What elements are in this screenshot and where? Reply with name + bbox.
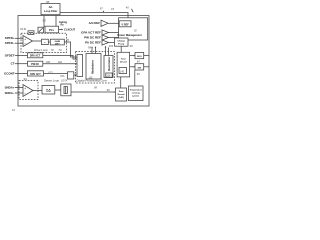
- svg-text:SPKR+: SPKR+: [5, 36, 15, 40]
- svg-text:OFDET: OFDET: [5, 53, 15, 57]
- svg-text:GCONT: GCONT: [4, 71, 15, 75]
- svg-text:CLKOUT: CLKOUT: [64, 28, 76, 32]
- svg-text:Tone: Tone: [118, 91, 124, 93]
- chip outer frame: [18, 16, 149, 107]
- svg-text:Decod: Decod: [118, 94, 125, 96]
- wire row A to core: [43, 55, 76, 59]
- svg-text:DRV: DRV: [55, 43, 60, 45]
- wire row B in: [15, 63, 28, 65]
- wire CP to tone: [120, 46, 122, 52]
- svg-text:GPA VCT REF: GPA VCT REF: [81, 30, 101, 34]
- svg-text:Sense Loop: Sense Loop: [44, 79, 59, 83]
- svg-text:70: 70: [51, 48, 55, 52]
- svg-text:103: 103: [109, 44, 114, 48]
- svg-text:140: 140: [120, 70, 125, 73]
- svg-text:+: +: [24, 37, 26, 41]
- wire input-: [15, 42, 23, 44]
- wire row C in: [15, 72, 28, 74]
- svg-text:Modulator: Modulator: [91, 59, 95, 74]
- box M1 sigma-delta ADC: [42, 86, 55, 95]
- wire B1 to VREF: [108, 22, 119, 24]
- wire T1 to T2: [120, 77, 122, 88]
- buffer B4: [102, 40, 109, 45]
- svg-text:DRV ACT: DRV ACT: [30, 55, 41, 58]
- svg-text:Pump: Pump: [118, 44, 125, 46]
- wire core top stub 3: [105, 46, 107, 56]
- svg-text:A/L: A/L: [49, 5, 54, 9]
- svg-text:PLL: PLL: [49, 28, 55, 32]
- svg-text:Decod: Decod: [120, 62, 127, 64]
- svg-text:ΣΔ: ΣΔ: [46, 89, 51, 93]
- svg-text:Temperature: Temperature: [129, 89, 142, 92]
- wire loop-filter right stub: [55, 16, 57, 27]
- svg-text:96: 96: [107, 88, 110, 92]
- svg-text:Loop Filter: Loop Filter: [44, 9, 57, 13]
- wire D1-D2: [48, 41, 50, 43]
- box RA DRV ACT: [28, 53, 43, 58]
- svg-text:PA DC REF: PA DC REF: [85, 40, 101, 44]
- wire B3 to PM: [109, 37, 119, 39]
- svg-text:Digital Processing Core: Digital Processing Core: [77, 79, 108, 83]
- svg-text:102: 102: [58, 60, 63, 64]
- buffer B1: [101, 20, 108, 26]
- box SA serial out: [135, 53, 144, 59]
- box T2 range decoder: [116, 88, 127, 101]
- svg-text:SDI: SDI: [137, 67, 141, 69]
- svg-text:CT: CT: [11, 62, 15, 66]
- svg-text:sensing: sensing: [132, 93, 141, 95]
- box M2 filter: [61, 84, 71, 96]
- label Gating Rx: [59, 21, 67, 27]
- svg-text:93 91: 93 91: [20, 27, 27, 31]
- svg-text:104: 104: [106, 75, 111, 78]
- label 97: [100, 7, 104, 13]
- wire loop-filter left stub: [43, 16, 45, 28]
- wire row A in: [15, 54, 28, 56]
- svg-text:PW DC: PW DC: [31, 63, 39, 66]
- box C3 cal: [68, 72, 74, 79]
- dashed box sense amp: [19, 81, 38, 100]
- wire B4 to charge pump: [109, 42, 115, 44]
- wire B2 to PM: [109, 32, 119, 34]
- svg-text:+: +: [24, 86, 26, 90]
- svg-text:Decimator: Decimator: [107, 56, 111, 71]
- svg-text:A/G REF: A/G REF: [89, 21, 101, 25]
- feedback box R1: [28, 31, 34, 35]
- svg-text:Power Management: Power Management: [117, 33, 141, 37]
- box P2 modulator: [86, 54, 101, 80]
- wire M1-M2: [55, 89, 61, 91]
- box P1 mux: [77, 55, 83, 77]
- box D1 wave shaper: [42, 39, 49, 44]
- op-amp U1 drive amp: [23, 36, 33, 47]
- box VREF: [119, 21, 131, 27]
- svg-text:46: 46: [130, 44, 133, 48]
- box TS temperature sensor: [129, 86, 144, 101]
- svg-text:PW DC REF: PW DC REF: [84, 35, 101, 39]
- wire input+: [15, 37, 23, 39]
- buffer B3: [102, 35, 109, 40]
- wire drive to core: [64, 42, 75, 57]
- box T1 tone decoder: [117, 52, 130, 77]
- svg-text:73: 73: [59, 48, 63, 52]
- wire sense amp out: [33, 90, 42, 92]
- svg-text:99: 99: [88, 46, 91, 50]
- op-amp U3 sense amp: [23, 85, 33, 97]
- svg-text:SNDA+: SNDA+: [5, 85, 15, 89]
- wire T1 to SB: [130, 66, 136, 68]
- svg-text:SNDA−: SNDA−: [5, 91, 15, 95]
- svg-text:90: 90: [43, 19, 47, 23]
- svg-text:70A: 70A: [60, 75, 65, 78]
- svg-text:18: 18: [111, 7, 114, 11]
- svg-text:V REF: V REF: [121, 23, 129, 26]
- wire core top stub 2: [95, 46, 97, 53]
- svg-text:96: 96: [46, 0, 50, 4]
- PLL box U2: [45, 26, 59, 33]
- wire row B to core: [43, 63, 77, 65]
- svg-text:97: 97: [100, 7, 103, 11]
- svg-text:SPKR−: SPKR−: [5, 41, 15, 45]
- wire SA pin: [144, 55, 149, 57]
- wire TS up: [134, 70, 136, 86]
- svg-text:Drive Loop: Drive Loop: [34, 48, 48, 52]
- wire mic-: [15, 92, 23, 94]
- wire C3 to core: [74, 74, 77, 76]
- svg-text:103: 103: [48, 71, 53, 75]
- svg-text:system: system: [132, 95, 139, 98]
- box RC DRV ACT 2: [28, 71, 44, 76]
- loop filter box LF: [41, 4, 60, 15]
- wire CLKOUT: [59, 28, 76, 32]
- wire row C: [44, 72, 68, 74]
- svg-text:Charge: Charge: [117, 41, 125, 43]
- svg-text:DRV ACT: DRV ACT: [30, 73, 41, 76]
- label 40: [126, 6, 133, 13]
- wire core top stub 4: [108, 48, 110, 56]
- dashed box digital processing core: [76, 52, 115, 84]
- wire mic+: [15, 87, 23, 89]
- box P3 decimator: [104, 56, 113, 78]
- svg-text:−: −: [24, 42, 26, 46]
- box D2 gain driver: [50, 39, 64, 45]
- svg-text:(140): (140): [118, 96, 123, 99]
- wire loop filter to power management: [60, 13, 128, 18]
- box RB PW DC: [28, 61, 43, 66]
- wire core top stub 1: [91, 46, 93, 53]
- svg-text:Tone: Tone: [121, 59, 127, 61]
- dashed box drive loop: [21, 33, 67, 52]
- wire T1 to SA: [130, 55, 136, 57]
- svg-text:107A: 107A: [61, 79, 67, 83]
- box CP charge pump: [115, 38, 129, 46]
- svg-text:40: 40: [126, 6, 129, 10]
- wire amp output: [33, 40, 42, 42]
- svg-text:SDO: SDO: [137, 56, 142, 58]
- box PM power management: [117, 18, 147, 40]
- box SB serial in: [135, 64, 144, 70]
- buffer B2: [102, 30, 109, 35]
- crystal box X1: [38, 27, 44, 33]
- wire SB pin: [144, 66, 149, 68]
- svg-text:100: 100: [46, 60, 51, 64]
- svg-text:−: −: [24, 92, 26, 96]
- wire sense to decoder: [71, 91, 116, 93]
